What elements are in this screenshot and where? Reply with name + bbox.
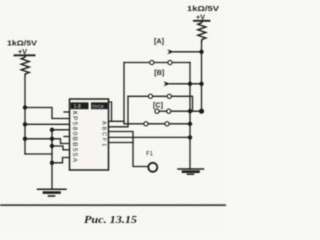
wire right vertical V2 to ground <box>189 63 191 170</box>
IC right pin 1 wire <box>109 120 125 122</box>
node row4lower-V2 junction <box>188 135 192 139</box>
wire row B lower with arrow <box>164 81 171 86</box>
svg-text:ПУСК: ПУСК <box>92 104 104 109</box>
resistor R1 <box>21 55 29 75</box>
wire to IC pin 7 <box>52 146 70 150</box>
node C-bus junction <box>199 109 204 114</box>
IC right pin 5 stub <box>109 142 134 144</box>
node bus junction 3 <box>23 137 27 141</box>
node bus junction 1 <box>23 105 27 109</box>
wire bus to IC pin 6 <box>25 139 70 144</box>
IC right pin top stub <box>109 102 112 121</box>
svg-text:КР580ВВ55А: КР580ВВ55А <box>71 111 78 164</box>
wire bus bottom elbow <box>25 153 52 155</box>
IC U1 body <box>70 99 109 170</box>
IC header label block right <box>91 102 108 109</box>
node B-bus junction <box>199 82 203 86</box>
wire right bus V1 <box>201 41 203 111</box>
node mid junction c <box>50 144 54 148</box>
node B-V2 junction <box>188 82 192 86</box>
wire bus to IC pin 3 <box>25 123 70 125</box>
node row4-V2 junction <box>188 122 192 126</box>
svg-text:F1: F1 <box>146 152 154 158</box>
wire riser B and 4th row <box>124 63 190 124</box>
caption rule <box>0 204 226 206</box>
svg-text:[B]: [B] <box>154 68 164 77</box>
svg-text:1-8: 1-8 <box>74 104 81 110</box>
node mid junction a <box>50 128 54 132</box>
svg-text:АВСF1: АВСF1 <box>100 121 106 148</box>
wire 4th row lower <box>109 136 191 138</box>
ground left <box>38 188 67 190</box>
IC left stub pin 1 <box>64 111 70 113</box>
node C-V2 junction <box>188 109 192 113</box>
wire middle vertical to ground <box>51 130 53 189</box>
node mid junction d <box>50 161 54 165</box>
node A-bus junction <box>199 50 203 54</box>
svg-text:[C]: [C] <box>153 101 163 110</box>
IC right pin 3 wire to F1 <box>109 132 149 167</box>
contact pair row B <box>150 60 154 64</box>
resistor R2 <box>198 21 206 41</box>
wire to IC pin 4 <box>52 129 70 131</box>
wire row C lower with contacts <box>155 109 159 113</box>
lamp F1 <box>148 163 157 172</box>
node bus junction 2 <box>23 122 27 126</box>
IC left stub pin 5 <box>64 136 70 138</box>
contact pair row C <box>148 94 152 98</box>
wire row A with arrow <box>167 49 174 54</box>
ground right <box>178 168 204 170</box>
IC header label block left <box>71 102 89 109</box>
wire left bus <box>24 75 26 154</box>
wire bus to IC pin 2 <box>25 108 70 119</box>
wire row C upper <box>128 96 193 111</box>
node mid junction b <box>50 137 54 141</box>
wire row B upper <box>124 62 190 64</box>
contact pair row 4 <box>144 122 148 126</box>
svg-text:Рис. 13.15: Рис. 13.15 <box>84 215 138 226</box>
IC right pin 2 wire, riser C <box>109 96 129 127</box>
svg-text:[A]: [A] <box>154 37 164 46</box>
wire to IC pin 8 <box>52 158 70 163</box>
